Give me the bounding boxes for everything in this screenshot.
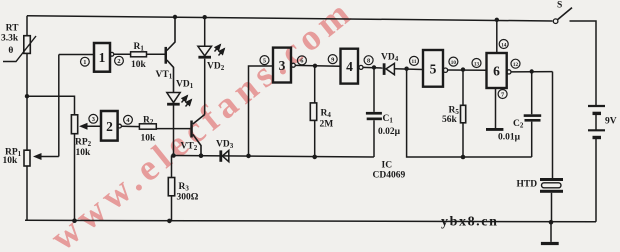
svg-text:IC: IC — [382, 161, 393, 171]
svg-text:56k: 56k — [442, 115, 458, 125]
svg-text:VD2: VD2 — [207, 62, 225, 73]
svg-text:9V: 9V — [605, 117, 617, 127]
svg-text:11: 11 — [412, 59, 417, 65]
svg-text:10k: 10k — [3, 156, 19, 166]
svg-text:10k: 10k — [76, 148, 92, 158]
svg-text:12: 12 — [513, 62, 519, 68]
svg-text:3: 3 — [92, 116, 95, 123]
svg-text:S: S — [557, 1, 562, 11]
svg-text:5: 5 — [263, 57, 266, 64]
svg-text:1: 1 — [99, 50, 106, 65]
svg-text:1: 1 — [83, 59, 86, 66]
svg-text:ybx8.cn: ybx8.cn — [441, 214, 499, 229]
svg-text:0.02μ: 0.02μ — [378, 127, 401, 137]
svg-text:13: 13 — [474, 61, 480, 67]
svg-text:2M: 2M — [320, 120, 334, 130]
svg-text:300Ω: 300Ω — [177, 193, 199, 203]
svg-text:CD4069: CD4069 — [373, 171, 406, 181]
svg-text:VD1: VD1 — [176, 80, 194, 91]
svg-text:0.01μ: 0.01μ — [498, 133, 521, 143]
svg-text:R1: R1 — [134, 42, 145, 53]
svg-text:HTD: HTD — [517, 180, 538, 190]
svg-text:3.3k: 3.3k — [1, 34, 19, 44]
svg-text:θ: θ — [8, 46, 13, 56]
svg-text:4: 4 — [346, 59, 353, 74]
svg-text:14: 14 — [501, 42, 507, 48]
svg-text:2: 2 — [117, 58, 120, 65]
svg-text:VD4: VD4 — [381, 53, 399, 64]
svg-text:VT2: VT2 — [181, 142, 198, 153]
svg-text:2: 2 — [106, 119, 113, 134]
svg-text:R4: R4 — [321, 109, 332, 120]
svg-text:10k: 10k — [141, 134, 157, 144]
svg-text:VD3: VD3 — [216, 140, 234, 151]
svg-text:3: 3 — [279, 58, 286, 73]
svg-text:R3: R3 — [179, 182, 190, 193]
svg-text:R2: R2 — [143, 116, 154, 127]
svg-text:6: 6 — [493, 64, 500, 79]
svg-text:C1: C1 — [383, 114, 394, 125]
svg-text:5: 5 — [430, 62, 437, 77]
svg-text:10k: 10k — [131, 60, 147, 70]
svg-text:RT: RT — [6, 24, 20, 34]
svg-text:VT1: VT1 — [156, 70, 173, 81]
svg-text:C2: C2 — [513, 119, 524, 130]
svg-text:RP2: RP2 — [75, 138, 92, 149]
svg-text:8: 8 — [367, 58, 370, 65]
svg-text:10: 10 — [451, 60, 457, 66]
svg-text:9: 9 — [331, 56, 334, 63]
